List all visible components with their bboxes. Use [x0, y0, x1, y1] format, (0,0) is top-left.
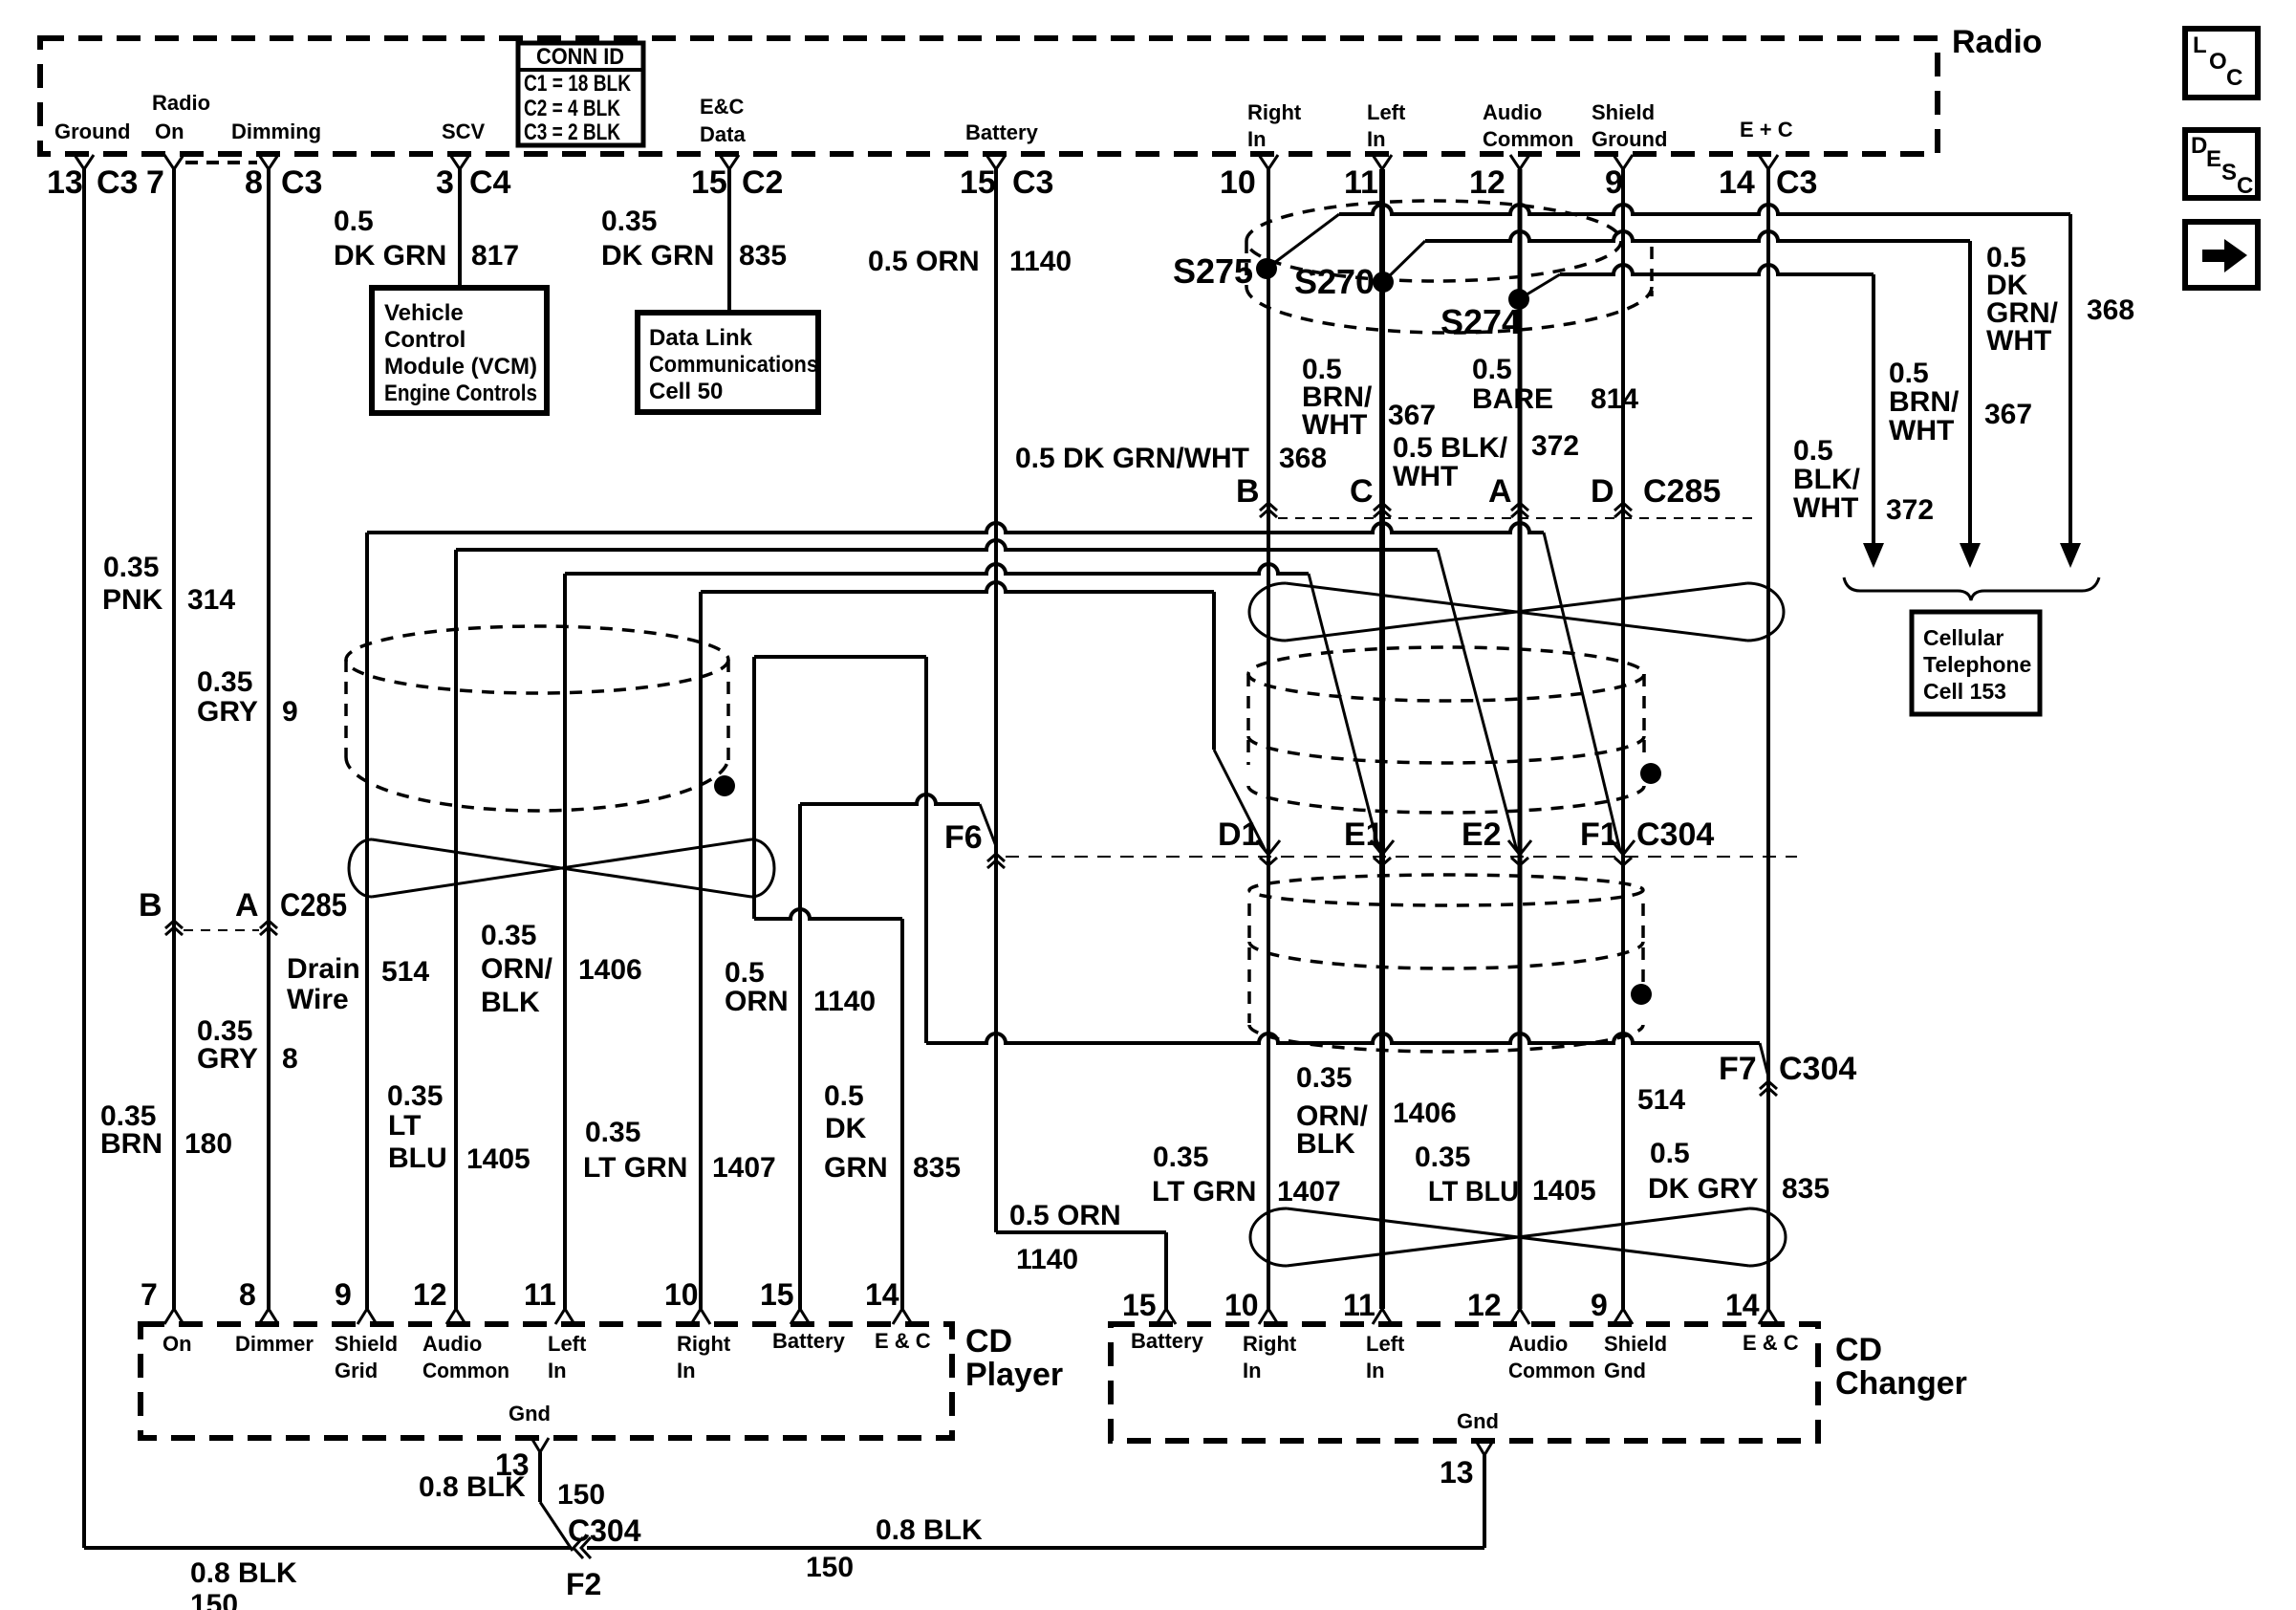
svg-text:1405: 1405 — [1532, 1175, 1596, 1207]
svg-text:S275: S275 — [1173, 251, 1253, 291]
svg-text:ORN/: ORN/ — [481, 953, 553, 985]
svg-text:8: 8 — [282, 1043, 298, 1075]
svg-text:10: 10 — [1224, 1288, 1259, 1322]
svg-text:BLK: BLK — [1296, 1128, 1355, 1160]
svg-text:367: 367 — [1388, 400, 1436, 431]
svg-text:GRY: GRY — [197, 696, 258, 728]
svg-text:Shield: Shield — [1592, 100, 1655, 124]
svg-text:F2: F2 — [566, 1567, 601, 1601]
svg-text:368: 368 — [2087, 294, 2134, 326]
svg-text:WHT: WHT — [1986, 325, 2051, 357]
svg-text:Shield: Shield — [335, 1332, 398, 1356]
svg-text:In: In — [1247, 127, 1267, 151]
svg-text:C285: C285 — [280, 887, 347, 924]
svg-text:In: In — [548, 1359, 567, 1382]
svg-text:Right: Right — [1247, 100, 1302, 124]
svg-text:10: 10 — [1220, 164, 1256, 201]
svg-text:F6: F6 — [944, 819, 983, 856]
svg-text:0.35: 0.35 — [585, 1117, 640, 1148]
svg-text:C304: C304 — [568, 1513, 641, 1548]
svg-text:Radio: Radio — [1952, 24, 2042, 60]
svg-text:E1: E1 — [1344, 816, 1384, 853]
svg-text:E2: E2 — [1462, 816, 1502, 853]
svg-text:Changer: Changer — [1835, 1365, 1967, 1402]
svg-text:11: 11 — [1343, 1288, 1375, 1322]
svg-text:DK GRY: DK GRY — [1648, 1173, 1759, 1205]
svg-text:Left: Left — [1367, 100, 1406, 124]
svg-text:Right: Right — [677, 1332, 731, 1356]
svg-text:E&C: E&C — [700, 95, 745, 119]
svg-text:In: In — [1367, 127, 1386, 151]
svg-text:C3: C3 — [97, 164, 138, 201]
svg-text:0.5: 0.5 — [1793, 435, 1833, 467]
svg-text:C3: C3 — [1776, 164, 1817, 201]
svg-text:Dimmer: Dimmer — [235, 1332, 314, 1356]
svg-text:9: 9 — [1591, 1288, 1608, 1322]
svg-text:In: In — [677, 1359, 696, 1382]
svg-text:Drain: Drain — [287, 953, 360, 985]
svg-text:C285: C285 — [1643, 473, 1721, 510]
svg-text:1406: 1406 — [1393, 1098, 1457, 1129]
svg-text:Vehicle: Vehicle — [384, 300, 464, 326]
svg-text:Control: Control — [384, 327, 466, 353]
svg-text:Cellular: Cellular — [1923, 625, 2004, 650]
svg-text:C3: C3 — [1012, 164, 1053, 201]
svg-text:C304: C304 — [1636, 816, 1714, 853]
svg-text:0.35: 0.35 — [1415, 1142, 1470, 1173]
svg-text:WHT: WHT — [1793, 492, 1858, 524]
svg-text:Data: Data — [700, 122, 746, 146]
svg-text:C: C — [2226, 65, 2242, 91]
svg-text:11: 11 — [524, 1277, 556, 1312]
svg-text:1140: 1140 — [813, 986, 876, 1017]
svg-text:Cell 50: Cell 50 — [649, 379, 723, 404]
svg-text:0.35: 0.35 — [481, 920, 536, 951]
svg-text:LT BLU: LT BLU — [1428, 1176, 1519, 1207]
svg-text:0.35: 0.35 — [197, 666, 252, 698]
svg-text:Audio: Audio — [1483, 100, 1542, 124]
svg-text:B: B — [1236, 473, 1260, 510]
svg-text:0.5 ORN: 0.5 ORN — [1009, 1200, 1121, 1231]
svg-text:Right: Right — [1243, 1332, 1297, 1356]
svg-text:Battery: Battery — [772, 1329, 846, 1353]
svg-text:Left: Left — [1366, 1332, 1405, 1356]
svg-text:Shield: Shield — [1604, 1332, 1667, 1356]
svg-text:F1: F1 — [1580, 816, 1618, 853]
svg-text:C1 = 18 BLK: C1 = 18 BLK — [524, 71, 632, 97]
svg-text:12: 12 — [413, 1277, 447, 1312]
svg-text:368: 368 — [1279, 443, 1327, 474]
svg-text:514: 514 — [381, 956, 429, 988]
svg-text:0.5 ORN: 0.5 ORN — [868, 246, 980, 277]
svg-text:C304: C304 — [1779, 1051, 1856, 1087]
svg-text:15: 15 — [691, 164, 727, 201]
svg-text:3: 3 — [436, 164, 454, 201]
svg-text:814: 814 — [1591, 383, 1638, 415]
svg-text:Ground: Ground — [54, 120, 130, 143]
svg-text:S274: S274 — [1440, 302, 1521, 341]
svg-text:E: E — [2206, 146, 2221, 172]
svg-text:L: L — [2193, 33, 2207, 58]
svg-text:D1: D1 — [1218, 816, 1259, 853]
svg-text:372: 372 — [1531, 430, 1579, 462]
svg-text:0.5: 0.5 — [1472, 354, 1512, 385]
svg-text:15: 15 — [760, 1277, 794, 1312]
svg-text:314: 314 — [187, 584, 235, 616]
svg-text:Common: Common — [1508, 1359, 1595, 1382]
svg-text:835: 835 — [1782, 1173, 1830, 1205]
svg-text:Radio: Radio — [152, 91, 210, 115]
svg-text:12: 12 — [1467, 1288, 1502, 1322]
svg-text:0.5 DK GRN/WHT: 0.5 DK GRN/WHT — [1015, 443, 1249, 474]
svg-text:1407: 1407 — [1277, 1176, 1341, 1207]
svg-text:Player: Player — [965, 1357, 1063, 1393]
svg-text:Battery: Battery — [1131, 1329, 1204, 1353]
svg-text:On: On — [155, 120, 184, 143]
svg-text:Gnd: Gnd — [1457, 1409, 1499, 1433]
svg-text:CD: CD — [965, 1323, 1012, 1360]
svg-text:GRY: GRY — [197, 1043, 258, 1075]
svg-text:Audio: Audio — [1508, 1332, 1568, 1356]
svg-text:0.8 BLK: 0.8 BLK — [190, 1557, 297, 1589]
svg-text:PNK: PNK — [102, 584, 163, 616]
svg-text:1140: 1140 — [1009, 246, 1072, 277]
svg-text:B: B — [139, 887, 162, 924]
svg-text:CD: CD — [1835, 1332, 1882, 1368]
svg-text:LT: LT — [388, 1110, 421, 1142]
svg-text:0.5 BLK/: 0.5 BLK/ — [1393, 432, 1508, 464]
svg-text:0.35: 0.35 — [103, 552, 159, 583]
svg-text:7: 7 — [146, 164, 164, 201]
svg-text:E & C: E & C — [875, 1329, 931, 1353]
svg-text:WHT: WHT — [1889, 415, 1954, 446]
svg-text:Cell 153: Cell 153 — [1923, 679, 2006, 704]
svg-text:LT GRN: LT GRN — [583, 1152, 687, 1184]
svg-text:Module (VCM): Module (VCM) — [384, 354, 537, 380]
svg-text:150: 150 — [806, 1552, 854, 1583]
svg-text:14: 14 — [1725, 1288, 1760, 1322]
svg-text:817: 817 — [471, 240, 519, 272]
svg-text:C3 = 2 BLK: C3 = 2 BLK — [524, 120, 621, 145]
svg-text:Audio: Audio — [422, 1332, 482, 1356]
svg-text:13: 13 — [1440, 1455, 1474, 1490]
svg-text:Data Link: Data Link — [649, 325, 753, 351]
svg-text:0.8 BLK: 0.8 BLK — [876, 1514, 983, 1546]
svg-text:Ground: Ground — [1592, 127, 1667, 151]
svg-text:0.5: 0.5 — [334, 206, 374, 237]
svg-text:S: S — [2221, 160, 2237, 185]
svg-text:GRN: GRN — [824, 1152, 888, 1184]
svg-text:D: D — [2191, 133, 2207, 159]
svg-text:1405: 1405 — [466, 1143, 531, 1175]
svg-text:8: 8 — [239, 1277, 256, 1312]
svg-text:Common: Common — [1483, 127, 1573, 151]
svg-text:BLK/: BLK/ — [1793, 464, 1861, 495]
svg-text:14: 14 — [1719, 164, 1755, 201]
svg-text:BARE: BARE — [1472, 383, 1553, 415]
svg-text:BLU: BLU — [388, 1142, 447, 1174]
svg-text:835: 835 — [739, 240, 787, 272]
svg-text:Battery: Battery — [965, 120, 1039, 144]
svg-text:367: 367 — [1984, 399, 2032, 430]
svg-text:ORN: ORN — [725, 986, 789, 1017]
svg-text:150: 150 — [190, 1589, 238, 1610]
svg-text:D: D — [1591, 473, 1614, 510]
svg-text:14: 14 — [865, 1277, 899, 1312]
svg-text:LT GRN: LT GRN — [1152, 1176, 1256, 1207]
svg-text:Dimming: Dimming — [231, 120, 321, 143]
svg-text:C: C — [1350, 473, 1374, 510]
svg-text:372: 372 — [1886, 494, 1934, 526]
svg-text:Gnd: Gnd — [509, 1402, 551, 1425]
svg-text:C: C — [2237, 173, 2253, 199]
svg-text:CONN ID: CONN ID — [536, 44, 624, 70]
svg-text:WHT: WHT — [1393, 461, 1458, 492]
svg-text:Common: Common — [422, 1359, 509, 1382]
svg-text:C4: C4 — [469, 164, 511, 201]
svg-text:0.5: 0.5 — [725, 957, 765, 989]
svg-text:BLK: BLK — [481, 987, 540, 1018]
svg-text:In: In — [1366, 1359, 1385, 1382]
svg-text:Wire: Wire — [287, 984, 349, 1015]
svg-text:9: 9 — [335, 1277, 352, 1312]
svg-text:9: 9 — [1605, 164, 1623, 201]
svg-text:S270: S270 — [1294, 262, 1375, 301]
svg-text:C2: C2 — [742, 164, 783, 201]
svg-text:DK: DK — [825, 1113, 867, 1144]
svg-text:514: 514 — [1637, 1084, 1685, 1116]
svg-text:7: 7 — [141, 1277, 158, 1312]
svg-text:E & C: E & C — [1743, 1331, 1799, 1355]
svg-text:9: 9 — [282, 696, 298, 728]
svg-text:Gnd: Gnd — [1604, 1359, 1646, 1382]
svg-text:Left: Left — [548, 1332, 587, 1356]
svg-text:A: A — [235, 887, 259, 924]
svg-text:11: 11 — [1344, 164, 1378, 201]
svg-text:DK GRN: DK GRN — [334, 240, 446, 272]
svg-text:On: On — [162, 1332, 192, 1356]
svg-text:0.5: 0.5 — [824, 1080, 864, 1112]
svg-text:0.5: 0.5 — [1889, 358, 1929, 389]
svg-text:DK GRN: DK GRN — [601, 240, 714, 272]
svg-text:13: 13 — [47, 164, 83, 201]
svg-text:1406: 1406 — [578, 954, 642, 986]
svg-text:SCV: SCV — [442, 120, 486, 143]
svg-text:8: 8 — [245, 164, 263, 201]
svg-text:15: 15 — [1122, 1288, 1157, 1322]
svg-text:1407: 1407 — [712, 1152, 776, 1184]
svg-text:0.35: 0.35 — [1153, 1142, 1208, 1173]
svg-text:In: In — [1243, 1359, 1262, 1382]
svg-text:10: 10 — [664, 1277, 699, 1312]
svg-text:0.5: 0.5 — [1650, 1138, 1690, 1169]
svg-text:15: 15 — [960, 164, 996, 201]
svg-text:Telephone: Telephone — [1923, 652, 2031, 677]
svg-text:0.8 BLK: 0.8 BLK — [419, 1471, 526, 1503]
svg-text:BRN: BRN — [100, 1128, 162, 1160]
svg-text:C3: C3 — [281, 164, 322, 201]
svg-text:0.35: 0.35 — [601, 206, 657, 237]
svg-text:0.35: 0.35 — [387, 1080, 443, 1112]
svg-text:C2 = 4 BLK: C2 = 4 BLK — [524, 96, 621, 121]
svg-text:835: 835 — [913, 1152, 961, 1184]
svg-text:180: 180 — [184, 1128, 232, 1160]
svg-text:Grid: Grid — [335, 1359, 378, 1382]
svg-text:Engine Controls: Engine Controls — [384, 381, 537, 406]
svg-text:E + C: E + C — [1740, 118, 1793, 141]
svg-text:Communications: Communications — [649, 352, 818, 378]
svg-text:O: O — [2209, 49, 2227, 75]
svg-text:F7: F7 — [1719, 1051, 1757, 1087]
svg-text:A: A — [1488, 473, 1512, 510]
svg-text:150: 150 — [557, 1479, 605, 1511]
svg-text:1140: 1140 — [1016, 1244, 1078, 1275]
svg-text:BRN/: BRN/ — [1889, 386, 1960, 418]
svg-text:0.35: 0.35 — [1296, 1062, 1352, 1094]
svg-text:12: 12 — [1469, 164, 1505, 201]
svg-text:WHT: WHT — [1302, 409, 1367, 441]
